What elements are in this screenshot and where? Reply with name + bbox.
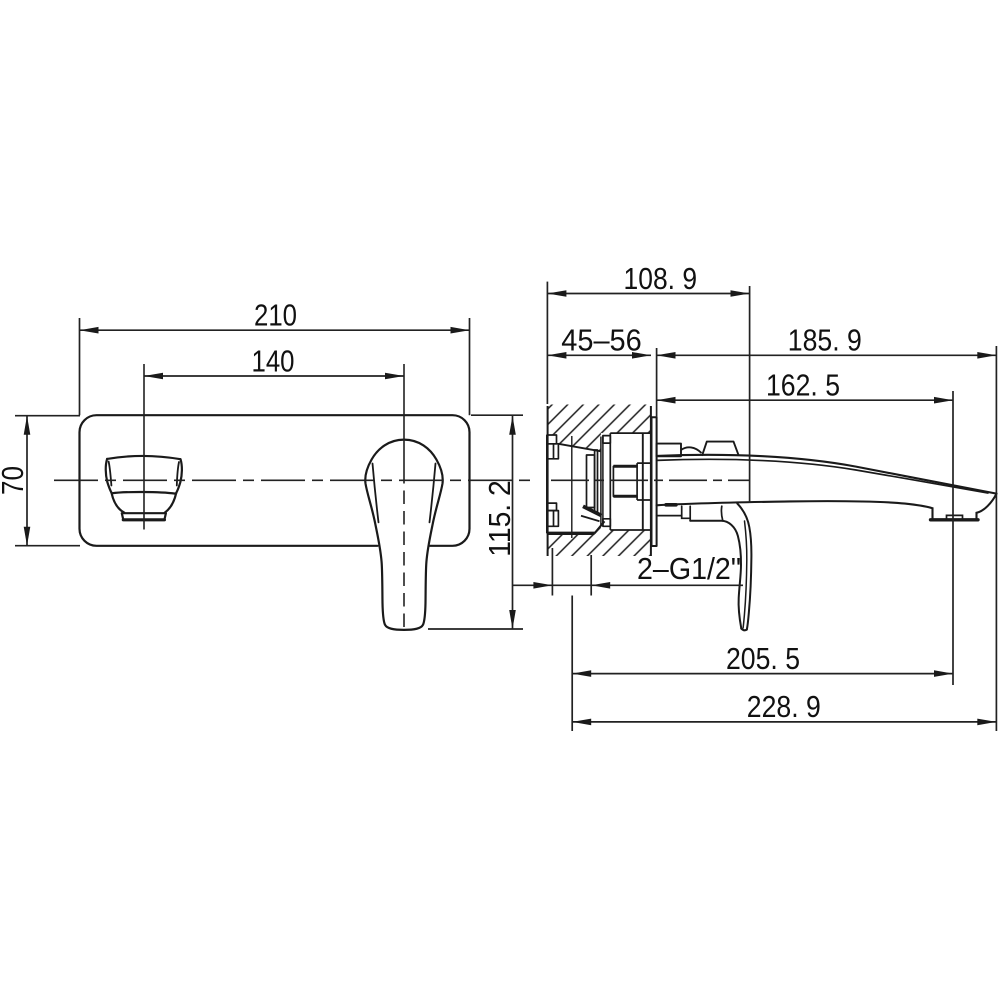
svg-text:45–56: 45–56 (561, 324, 642, 358)
svg-text:108. 9: 108. 9 (624, 262, 698, 296)
svg-text:2–G1/2": 2–G1/2" (637, 552, 741, 586)
svg-text:228. 9: 228. 9 (747, 690, 821, 724)
svg-text:210: 210 (254, 299, 297, 333)
svg-text:205. 5: 205. 5 (726, 642, 800, 676)
svg-text:185. 9: 185. 9 (788, 324, 862, 358)
svg-text:115. 2: 115. 2 (483, 480, 517, 557)
svg-text:70: 70 (0, 466, 30, 495)
svg-text:162. 5: 162. 5 (766, 369, 840, 403)
svg-text:140: 140 (252, 344, 295, 378)
